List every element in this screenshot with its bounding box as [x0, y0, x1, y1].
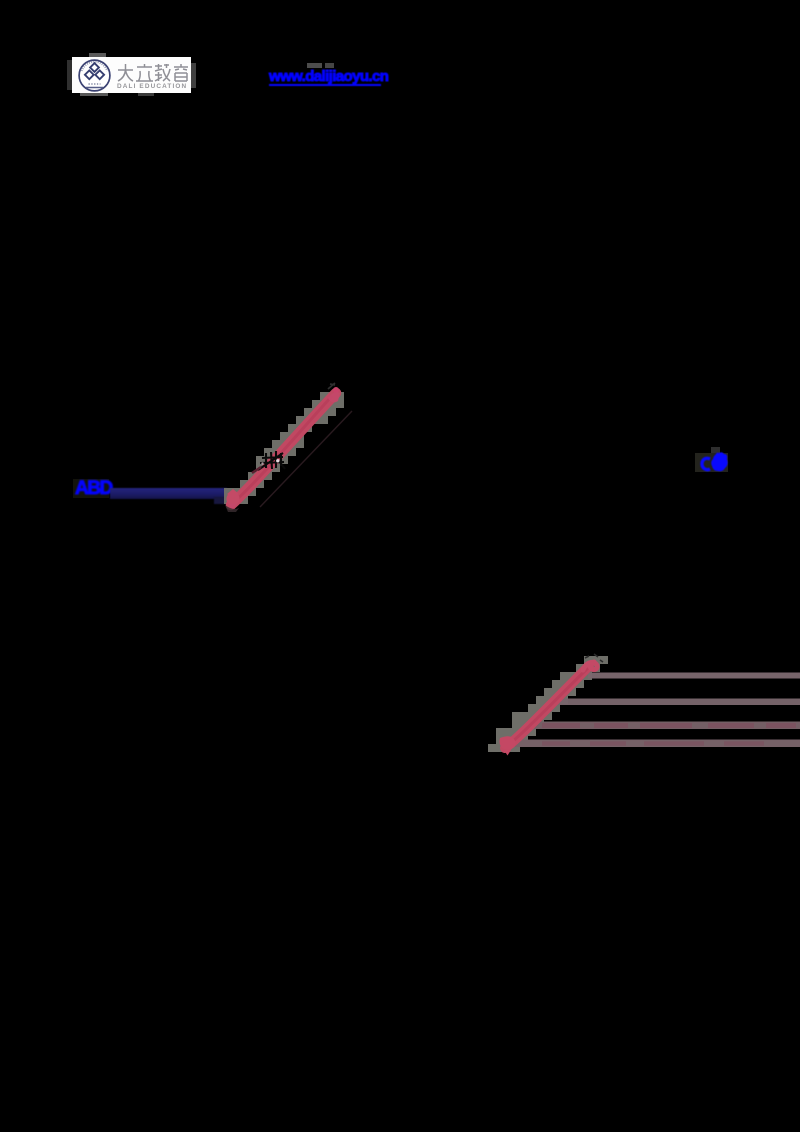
stroke1 scribble dark edge — [252, 467, 261, 473]
育 — [174, 64, 188, 81]
gray marks above link — [307, 63, 322, 68]
stroke1 tick above top — [328, 383, 335, 389]
大 — [118, 64, 133, 81]
answer halo — [73, 479, 109, 498]
stroke1 scribble white specks — [276, 459, 279, 462]
stroke1 pink diagonal — [231, 393, 336, 505]
教 — [155, 64, 170, 81]
stroke1 ghost line — [260, 411, 352, 507]
band underline 1 — [588, 673, 800, 679]
stroke2 halo blocks — [488, 656, 608, 752]
stroke1 black scribble — [258, 451, 285, 470]
navy bar dark tail — [214, 497, 226, 504]
band underline 3 — [531, 722, 800, 730]
stroke2 pink diagonal — [505, 666, 589, 748]
logo latin text — [117, 83, 189, 90]
navy underline bar — [110, 488, 227, 499]
logo chinese text 大立教育 (drawn strokes) — [117, 63, 189, 83]
blue handwritten mark halo — [695, 453, 728, 472]
blue link www — [269, 68, 381, 86]
answer text ABD blue — [75, 478, 112, 500]
logo box white background — [72, 57, 191, 93]
stroke1 bottom arrowhead — [226, 492, 239, 505]
dali emblem — [76, 58, 113, 93]
stroke2 bottom tip — [504, 750, 511, 756]
stroke1 halo blocks — [224, 392, 344, 504]
stroke2 bottom arrow blob — [500, 736, 516, 750]
stroke1 end dark shadow — [225, 505, 239, 512]
立 — [136, 64, 153, 81]
stroke2 top specks — [585, 654, 603, 662]
stroke2 top hook — [583, 662, 597, 670]
band underline 2 — [556, 699, 800, 706]
band underline 4 — [512, 740, 800, 748]
logo artifact gray blocks — [89, 53, 106, 57]
stroke1 top nub — [333, 387, 339, 393]
blue handwritten mark — [702, 452, 728, 471]
